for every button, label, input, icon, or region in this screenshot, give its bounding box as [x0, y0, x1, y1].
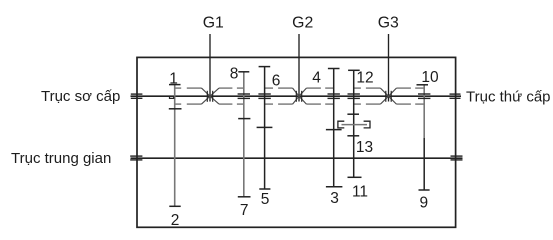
shift rod G1 — [209, 34, 211, 102]
svg-text:13: 13 — [356, 139, 373, 156]
gear 1 / gear 2 mesh tick — [169, 108, 182, 110]
shift rod G3 — [388, 34, 390, 102]
svg-text:1: 1 — [169, 71, 178, 88]
gearbox housing box — [137, 57, 456, 227]
gear 8 / gear 7 column line — [243, 72, 245, 197]
primary/secondary shaft — [131, 95, 462, 97]
gear 9 column line lower — [423, 138, 425, 190]
shift fork G3 — [386, 91, 391, 102]
bearing right secondary shaft — [450, 94, 461, 98]
reverse idler gear 13 right bracket — [364, 121, 370, 128]
gear 8 top tick — [238, 71, 249, 73]
svg-text:6: 6 — [272, 73, 281, 90]
svg-text:4: 4 — [312, 70, 321, 87]
gear 7 bottom tick — [238, 196, 251, 198]
gear 11 top tick — [347, 135, 359, 137]
gear 4 top tick — [328, 68, 340, 70]
gear 6 / gear 5 mesh tick — [257, 126, 273, 128]
gear 12 hub marks — [348, 94, 360, 98]
synchronizer G3 cone diagonals — [380, 88, 396, 104]
gear 8 / gear 7 mesh tick — [238, 118, 250, 120]
synchronizer G2 cone diagonals — [293, 88, 307, 104]
svg-text:2: 2 — [171, 212, 180, 229]
svg-text:8: 8 — [230, 66, 239, 83]
shift fork G2 — [296, 91, 301, 102]
gear 12 / gear 11 column line — [353, 70, 355, 177]
gear 6 top tick — [259, 66, 271, 68]
svg-text:10: 10 — [421, 69, 439, 86]
gear 4 / gear 3 mesh tick — [326, 129, 342, 131]
svg-text:G2: G2 — [292, 15, 313, 32]
svg-text:Trục sơ cấp: Trục sơ cấp — [41, 88, 120, 105]
svg-text:Trục trung gian: Trục trung gian — [11, 150, 111, 167]
gear 9 bottom tick — [419, 189, 430, 191]
bearing left intermediate shaft — [130, 156, 142, 160]
shift rod G2 — [298, 34, 300, 102]
gear 10 column line upper — [423, 85, 425, 138]
svg-text:Trục thứ cấp: Trục thứ cấp — [466, 89, 551, 106]
gear 5 bottom tick — [259, 188, 270, 190]
gear 6 hub marks — [258, 94, 270, 98]
synchronizer G2 dashed path — [265, 88, 334, 104]
svg-text:12: 12 — [356, 70, 373, 87]
svg-text:5: 5 — [261, 191, 270, 208]
gear 6 / gear 5 column line — [264, 67, 266, 189]
gear 10 top tick — [417, 84, 429, 86]
bearing left primary shaft — [131, 94, 143, 98]
svg-text:G3: G3 — [378, 15, 399, 32]
synchronizer G1 dashed path — [175, 88, 243, 104]
reverse idler gear 13 left bracket — [338, 121, 344, 128]
shift fork G1 — [207, 91, 212, 102]
gear 1 hub notch on shaft — [170, 96, 174, 98]
gear 4 / gear 3 column line — [333, 69, 335, 187]
gear 12 bottom tick — [347, 113, 359, 115]
gear 12 top tick — [348, 69, 360, 71]
gear 2 bottom tick — [169, 205, 180, 207]
gear 4 hub marks — [328, 94, 340, 98]
intermediate shaft — [131, 157, 463, 159]
gear 8 hub marks — [238, 94, 250, 98]
gear 1 top tick — [169, 84, 181, 86]
svg-text:7: 7 — [240, 202, 249, 219]
bearing right intermediate shaft — [451, 156, 463, 160]
gear 11 bottom tick — [348, 176, 362, 178]
svg-text:3: 3 — [330, 190, 339, 207]
reverse idler gear 13 axle line — [342, 124, 368, 126]
synchronizer G3 dashed path — [354, 88, 424, 104]
gear 10 hub marks — [418, 94, 430, 98]
synchronizer G1 cone diagonals — [202, 88, 220, 104]
svg-text:G1: G1 — [203, 15, 224, 32]
gear 3 bottom tick — [326, 186, 343, 188]
svg-text:11: 11 — [352, 184, 368, 201]
gear 1 / gear 2 column line — [174, 85, 176, 207]
svg-text:9: 9 — [419, 195, 428, 212]
